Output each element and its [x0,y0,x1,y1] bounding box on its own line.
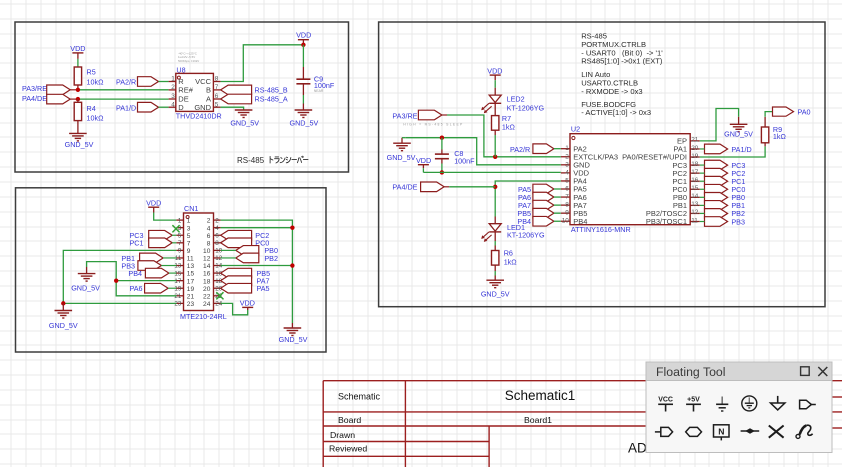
svg-text:1kΩ: 1kΩ [504,257,518,266]
svg-text:20: 20 [203,286,211,293]
svg-text:GND_5V: GND_5V [387,153,416,162]
svg-text:1kΩ: 1kΩ [502,123,516,132]
svg-text:20: 20 [691,145,699,152]
svg-text:6: 6 [207,233,211,240]
svg-text:Board: Board [338,415,361,425]
svg-text:Schematic: Schematic [338,392,381,402]
svg-text:PB4: PB4 [573,217,587,226]
svg-text:Schematic1: Schematic1 [505,388,576,403]
svg-text:RS-485: RS-485 [237,156,265,165]
svg-text:PC1: PC1 [130,239,144,248]
svg-text:8: 8 [565,202,569,209]
svg-text:RS485[1:0] ->0x1 (EXT): RS485[1:0] ->0x1 (EXT) [581,57,663,66]
svg-text:GND_5V: GND_5V [230,118,259,127]
svg-text:GND_5V: GND_5V [49,321,78,330]
svg-text:2: 2 [207,218,211,225]
svg-text:5: 5 [215,101,219,108]
svg-text:B: B [206,86,211,95]
svg-text:19: 19 [691,153,699,160]
svg-text:7: 7 [215,84,219,91]
svg-text:7: 7 [187,240,191,247]
svg-text:13: 13 [174,263,181,270]
svg-text:VDD: VDD [240,299,255,308]
svg-text:PA5: PA5 [257,284,270,293]
svg-text:10: 10 [215,248,222,255]
svg-text:PA4/DE: PA4/DE [22,94,47,103]
svg-text:7: 7 [178,240,182,247]
svg-text:8: 8 [207,240,211,247]
svg-text:+5V: +5V [687,397,700,404]
svg-text:PB2: PB2 [264,254,278,263]
svg-text:NEAR: NEAR [314,89,324,93]
svg-text:PB3/TOSC1: PB3/TOSC1 [646,217,687,226]
svg-text:R7: R7 [502,114,511,123]
svg-text:5: 5 [178,232,182,239]
svg-text:5: 5 [187,233,191,240]
svg-text:15: 15 [187,271,195,278]
svg-text:RS-485: RS-485 [581,31,607,40]
svg-text:6: 6 [565,186,569,193]
svg-text:GND_5V: GND_5V [724,129,753,138]
svg-text:100nF: 100nF [454,156,475,165]
svg-text:GND_5V: GND_5V [481,289,510,298]
svg-text:Drawn: Drawn [330,430,355,440]
svg-text:9: 9 [187,248,191,255]
svg-text:ATTINY1616-MNR: ATTINY1616-MNR [571,225,631,234]
svg-text:R5: R5 [87,68,96,77]
svg-text:2: 2 [215,217,219,224]
svg-text:11: 11 [187,256,194,263]
svg-text:PA0: PA0 [798,107,811,116]
svg-text:4: 4 [215,225,219,232]
svg-text:PA1/D: PA1/D [731,145,751,154]
svg-text:LED2: LED2 [507,95,525,104]
svg-text:Floating Tool: Floating Tool [656,365,726,379]
svg-text:19: 19 [174,285,181,292]
svg-text:17: 17 [691,169,699,176]
svg-text:18: 18 [691,161,699,168]
svg-text:R4: R4 [87,104,96,113]
svg-text:GND_5V: GND_5V [290,118,319,127]
svg-text:VDD: VDD [416,156,431,165]
svg-text:VDD: VDD [146,198,161,207]
svg-text:PA1/D: PA1/D [116,103,136,112]
svg-text:VCC: VCC [658,397,673,404]
svg-text:13: 13 [187,263,195,270]
svg-text:14: 14 [691,193,699,200]
svg-text:18: 18 [203,278,211,285]
svg-text:HIGH = RS-485 SLEEP: HIGH = RS-485 SLEEP [403,123,463,127]
svg-text:21: 21 [174,293,181,300]
svg-text:23: 23 [187,301,195,308]
svg-text:21: 21 [187,293,195,300]
svg-text:14: 14 [215,263,222,270]
svg-text:16: 16 [691,177,699,184]
svg-text:Reviewed: Reviewed [329,443,367,453]
svg-text:4: 4 [565,169,569,176]
svg-text:N: N [718,427,724,437]
svg-text:1kΩ: 1kΩ [773,132,787,141]
svg-text:5: 5 [565,177,569,184]
svg-text:U2: U2 [571,125,580,134]
svg-text:MTE210-24RL: MTE210-24RL [180,312,227,321]
svg-text:2: 2 [171,84,175,91]
svg-text:PA6: PA6 [129,284,142,293]
svg-text:11: 11 [175,255,182,262]
svg-text:8: 8 [215,76,219,83]
svg-text:10: 10 [203,248,211,255]
svg-text:PA3/RE: PA3/RE [22,84,47,93]
svg-text:500Kbps, ±16kV: 500Kbps, ±16kV [178,59,199,63]
svg-text:24: 24 [203,301,211,308]
svg-text:13: 13 [691,201,699,208]
svg-text:GND_5V: GND_5V [65,140,94,149]
svg-text:9: 9 [178,248,182,255]
svg-text:Board1: Board1 [524,415,552,425]
svg-text:PB3: PB3 [731,217,745,226]
svg-text:1: 1 [178,217,182,224]
svg-text:12: 12 [203,256,211,263]
svg-text:CN1: CN1 [184,204,198,213]
svg-text:RS-485_B: RS-485_B [255,86,288,95]
svg-text:24: 24 [215,301,222,308]
svg-text:U8: U8 [176,65,185,74]
svg-text:15: 15 [691,185,699,192]
svg-text:12: 12 [691,209,699,216]
svg-text:VDD: VDD [70,44,85,53]
svg-text:GND: GND [194,103,211,112]
svg-text:1: 1 [565,145,569,152]
svg-text:AD: AD [628,441,647,456]
svg-text:KT-1206YG: KT-1206YG [507,231,545,240]
svg-text:14: 14 [203,263,211,270]
svg-text:1: 1 [171,76,175,83]
svg-text:21: 21 [691,137,699,144]
svg-text:GND_5V: GND_5V [71,284,100,293]
svg-text:3: 3 [565,161,569,168]
svg-text:VDD: VDD [296,31,311,40]
svg-text:23: 23 [174,301,181,308]
svg-text:1: 1 [187,218,191,225]
svg-text:6: 6 [215,232,219,239]
svg-text:15: 15 [174,270,181,277]
svg-text:- ACTIVE[1:0] -> 0x3: - ACTIVE[1:0] -> 0x3 [581,108,651,117]
svg-text:D: D [178,103,184,112]
svg-text:3: 3 [171,93,175,100]
svg-text:PB4: PB4 [128,269,142,278]
svg-text:9: 9 [565,210,569,217]
svg-text:4: 4 [171,101,175,108]
svg-text:R6: R6 [504,248,513,257]
svg-text:8: 8 [215,240,219,247]
svg-text:THVD2410DR: THVD2410DR [176,112,222,121]
svg-text:17: 17 [174,278,181,285]
svg-text:KT-1206YG: KT-1206YG [507,103,545,112]
svg-text:GND_5V: GND_5V [279,335,308,344]
svg-text:6: 6 [215,93,219,100]
svg-text:10kΩ: 10kΩ [87,78,105,87]
svg-text:RE#: RE# [178,86,193,95]
svg-text:2: 2 [565,153,569,160]
svg-text:VDD: VDD [487,66,502,75]
svg-text:7: 7 [565,194,569,201]
svg-text:3: 3 [187,225,191,232]
svg-text:PA2/R: PA2/R [510,145,530,154]
svg-text:PA2/R: PA2/R [116,78,136,87]
svg-text:11: 11 [691,217,698,224]
svg-text:22: 22 [203,293,211,300]
svg-text:10: 10 [562,218,570,225]
svg-text:10kΩ: 10kΩ [87,113,105,122]
svg-text:19: 19 [187,286,195,293]
svg-text:PA4/DE: PA4/DE [392,183,417,192]
svg-text:- RXMODE -> 0x3: - RXMODE -> 0x3 [581,87,642,96]
svg-text:16: 16 [203,271,211,278]
svg-text:12: 12 [215,255,222,262]
svg-text:RS-485_A: RS-485_A [255,95,288,104]
svg-text:PA3/RE: PA3/RE [392,111,417,120]
svg-text:4: 4 [207,225,211,232]
svg-text:17: 17 [187,278,195,285]
